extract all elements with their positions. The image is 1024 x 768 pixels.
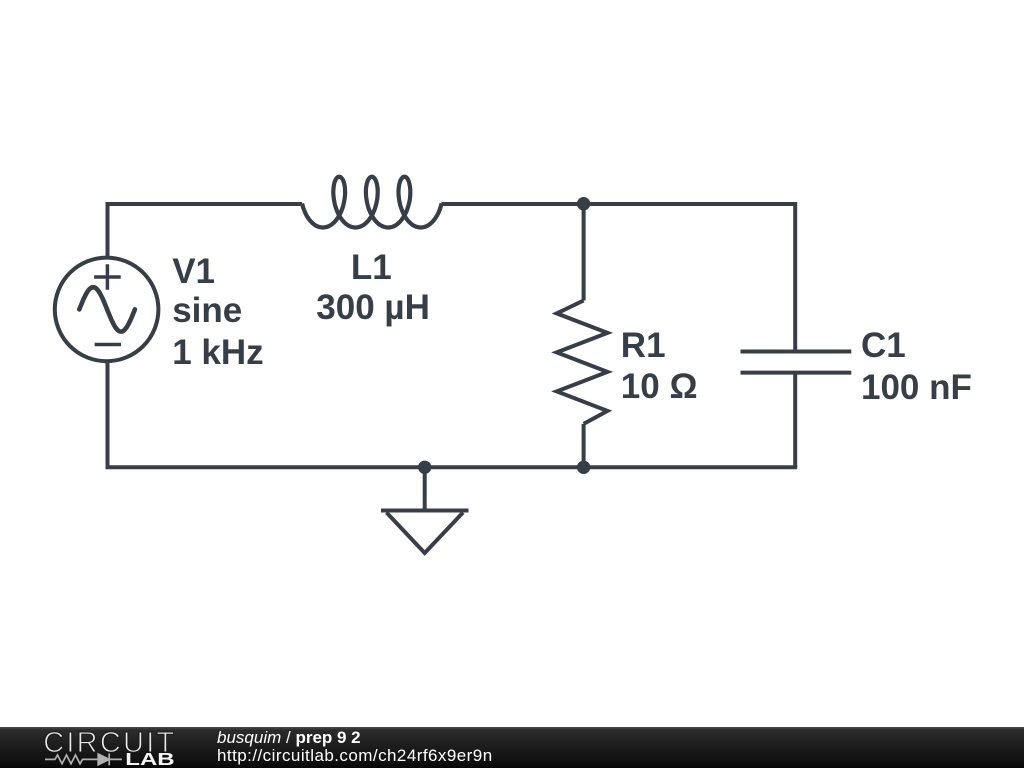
wire left rail upper bbox=[106, 202, 110, 258]
junction dot top node bbox=[579, 199, 588, 208]
label L1 value 300 uH bbox=[316, 288, 426, 328]
V1 plus sign bbox=[94, 264, 121, 290]
logo resistor-diode glyph bbox=[45, 754, 122, 766]
wire R1 branch upper bbox=[582, 204, 586, 301]
svg-text:LAB: LAB bbox=[125, 749, 174, 768]
ground symbol bbox=[381, 511, 469, 554]
capacitor C1 top plate bbox=[741, 350, 852, 354]
label C1 value 100 nF bbox=[861, 368, 972, 408]
CircuitLab logo wordmark bbox=[0, 727, 200, 768]
footer bar bbox=[0, 727, 1024, 768]
wire top-right segment bbox=[442, 202, 796, 206]
label V1 name bbox=[172, 252, 215, 292]
junction dot bottom node R1 bbox=[579, 463, 588, 472]
label V1 value 1 kHz bbox=[172, 333, 263, 373]
V1 minus sign bbox=[95, 343, 121, 347]
label R1 value 10 ohm bbox=[621, 367, 698, 407]
wire bottom rail bbox=[106, 465, 798, 469]
V1 sine symbol bbox=[79, 287, 135, 331]
label R1 name bbox=[621, 326, 666, 366]
wire right rail upper bbox=[793, 202, 797, 352]
junction dot ground node bbox=[420, 463, 429, 472]
label L1 name bbox=[316, 248, 426, 288]
wire left rail lower bbox=[106, 361, 110, 467]
voltage source V1 circle bbox=[55, 258, 159, 362]
footer title text bbox=[217, 729, 493, 766]
inductor L1 coil bbox=[302, 177, 442, 228]
wire top-left segment bbox=[108, 202, 303, 206]
capacitor C1 bottom plate bbox=[741, 371, 852, 375]
label C1 name bbox=[861, 326, 906, 366]
label V1 type sine bbox=[172, 291, 242, 331]
wire R1 branch lower bbox=[582, 424, 586, 467]
ground stub wire bbox=[423, 467, 427, 510]
wire right rail lower bbox=[793, 373, 797, 468]
resistor R1 zigzag bbox=[557, 301, 608, 424]
